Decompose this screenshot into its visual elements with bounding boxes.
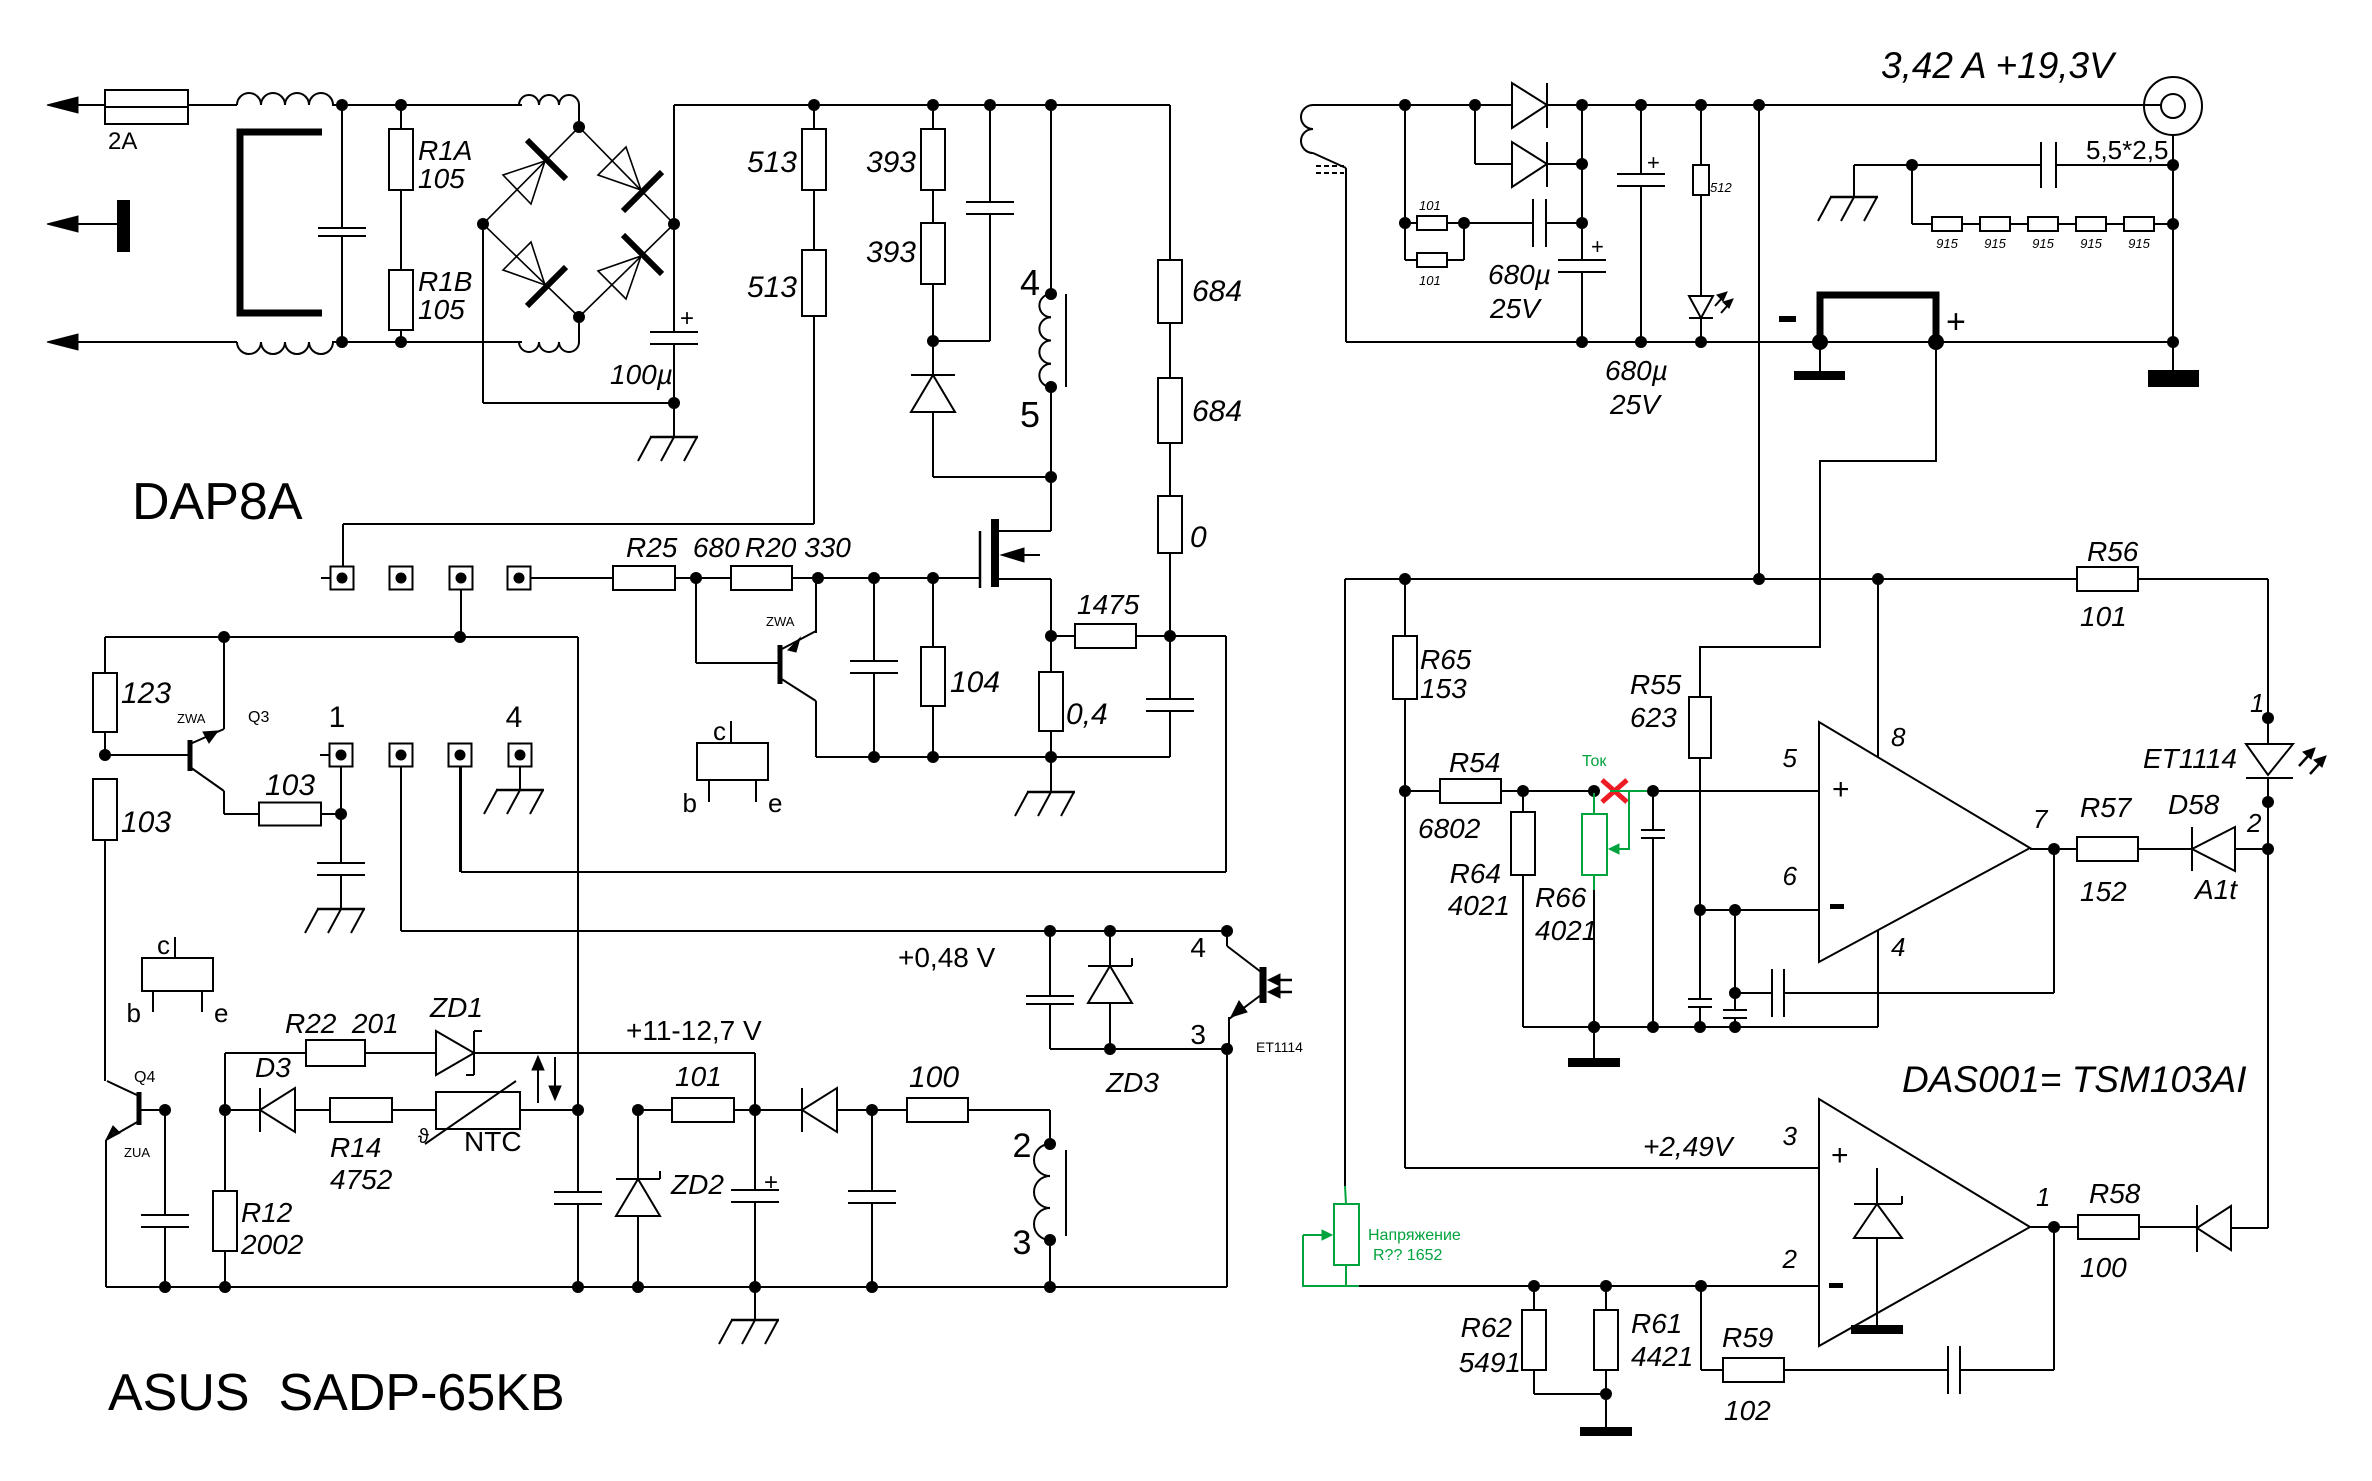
pin1 tick row1 bbox=[321, 577, 330, 579]
resistor 0.4 bbox=[1039, 636, 1108, 757]
svg-text:101: 101 bbox=[675, 1061, 722, 1092]
svg-text:25V: 25V bbox=[1609, 389, 1662, 420]
node LED bot bbox=[1695, 336, 1707, 348]
svg-text:102: 102 bbox=[1724, 1395, 1771, 1426]
svg-text:+2,49V: +2,49V bbox=[1643, 1131, 1735, 1162]
bridge node left bbox=[477, 218, 489, 230]
label Q2 pkg b bbox=[683, 780, 709, 818]
node gate-933 bbox=[927, 572, 939, 584]
capacitor sec film bbox=[1464, 199, 1582, 247]
svg-text:123: 123 bbox=[121, 677, 171, 710]
svg-text:R55: R55 bbox=[1630, 669, 1682, 700]
capacitor snubber top bbox=[933, 105, 1014, 341]
label Q3 ZWA bbox=[177, 711, 206, 726]
node fbrail-pin8 bbox=[1872, 573, 1884, 585]
wire minus input bbox=[1700, 909, 1819, 911]
svg-text:R20 330: R20 330 bbox=[745, 532, 851, 563]
node gndrail-578 bbox=[572, 1281, 584, 1293]
resistor R59 bbox=[1701, 1286, 1784, 1426]
node capP top bbox=[1647, 785, 1659, 797]
svg-text:e: e bbox=[214, 998, 228, 1028]
svg-text:ET1114: ET1114 bbox=[1256, 1039, 1303, 1055]
label Tok bbox=[1582, 753, 1607, 770]
node secrail-1475 bbox=[1469, 99, 1481, 111]
svg-text:6802: 6802 bbox=[1418, 813, 1481, 844]
node oprow-1653 bbox=[1647, 1021, 1659, 1033]
choke L1 bottom winding bbox=[237, 342, 333, 354]
svg-text:623: 623 bbox=[1630, 702, 1677, 733]
resistor R61 bbox=[1594, 1286, 1693, 1394]
resistor 103 horiz bbox=[224, 769, 341, 826]
label pin2 bbox=[1013, 1127, 1032, 1165]
svg-text:D3: D3 bbox=[255, 1052, 291, 1083]
node gndrail-1050 bbox=[1044, 1281, 1056, 1293]
resistor 101 par B bbox=[1405, 223, 1464, 288]
wire T1 pin4 riser bbox=[1050, 105, 1052, 294]
node film right bbox=[1576, 217, 1588, 229]
svg-text:R1B: R1B bbox=[418, 266, 472, 297]
resistor R62 bbox=[1459, 1286, 1606, 1394]
wire choke2b to bridge bottom bbox=[578, 317, 580, 342]
wire vcc aux top bbox=[105, 636, 578, 638]
wire source down bbox=[998, 579, 1051, 636]
capacitor aux 2 bbox=[848, 1110, 896, 1287]
node drain-477 bbox=[1045, 471, 1057, 483]
svg-text:7: 7 bbox=[2033, 804, 2049, 834]
node aux-ZD2 bbox=[632, 1104, 644, 1116]
node R25-R20 bbox=[690, 572, 702, 584]
svg-text:+0,48 V: +0,48 V bbox=[898, 942, 996, 973]
resistor R56 bbox=[2077, 536, 2139, 632]
node top-1 bbox=[336, 99, 348, 111]
label op1 pin8 bbox=[1891, 722, 1906, 752]
svg-text:5,5*2,5: 5,5*2,5 bbox=[2086, 135, 2168, 165]
wire Q4 emitter down bbox=[105, 1140, 107, 1287]
wire pin3 down bbox=[1049, 1240, 1051, 1287]
svg-text:ZUA: ZUA bbox=[124, 1145, 150, 1160]
wire Q2 base riser bbox=[695, 578, 697, 663]
node filmout left bbox=[1906, 159, 1918, 171]
label Q4 ZUA bbox=[124, 1145, 150, 1160]
svg-text:513: 513 bbox=[747, 271, 797, 304]
shunt staple bbox=[1820, 295, 1936, 342]
resistor R14 bbox=[330, 1098, 393, 1195]
label Napryazhenie bbox=[1368, 1227, 1461, 1264]
label ET1114 led bbox=[2143, 743, 2237, 774]
svg-text:ASUS SADP-65KB: ASUS SADP-65KB bbox=[108, 1364, 565, 1422]
resistor 0 bbox=[1158, 496, 1207, 554]
svg-text:ZD3: ZD3 bbox=[1105, 1067, 1159, 1098]
svg-text:4: 4 bbox=[506, 701, 523, 734]
node jack-165 bbox=[2167, 159, 2179, 171]
svg-text:153: 153 bbox=[1420, 673, 1467, 704]
svg-text:R65: R65 bbox=[1420, 644, 1472, 675]
bridge diode D-tl bbox=[503, 140, 566, 204]
svg-text:4752: 4752 bbox=[330, 1164, 393, 1195]
svg-text:680µ: 680µ bbox=[1605, 355, 1668, 386]
outline Q2 package bbox=[697, 743, 768, 780]
svg-text:4021: 4021 bbox=[1535, 915, 1597, 946]
svg-text:R56: R56 bbox=[2087, 536, 2139, 567]
wire +2.49 row bbox=[1405, 791, 1819, 1168]
pin pad row1-4 bbox=[508, 567, 531, 590]
svg-text:393: 393 bbox=[866, 236, 916, 269]
wire bottom to bridge bbox=[332, 341, 522, 343]
AC line N arrow bbox=[47, 334, 237, 350]
svg-text:Q3: Q3 bbox=[248, 709, 269, 726]
svg-text:105: 105 bbox=[418, 294, 465, 325]
resistor 393 lower bbox=[866, 223, 945, 341]
node shunt plus bbox=[1928, 334, 1944, 350]
outline Q4 package bbox=[142, 958, 213, 991]
svg-text:2002: 2002 bbox=[240, 1229, 304, 1260]
node cap680A bot bbox=[1576, 336, 1588, 348]
node rail-cap bbox=[984, 99, 996, 111]
label 2A bbox=[108, 128, 137, 155]
label op2 pin2 bbox=[1782, 1244, 1798, 1274]
phototransistor ET1114 bbox=[1227, 931, 1263, 1049]
capacitor Q4 base bbox=[141, 1110, 189, 1287]
svg-text:+: + bbox=[1647, 150, 1660, 175]
label opto pin3 bbox=[1190, 1019, 1206, 1050]
svg-text:104: 104 bbox=[950, 666, 1000, 699]
wire source return bbox=[816, 756, 1170, 758]
wire ZD1 to aux rail bbox=[474, 1053, 755, 1110]
wire snubber out bbox=[461, 636, 1226, 872]
ground sec stub bbox=[1818, 165, 1912, 221]
node fb993 bbox=[1729, 987, 1741, 999]
node oprow-1594 bbox=[1588, 1021, 1600, 1033]
node vset-R61 bbox=[1600, 1280, 1612, 1292]
label DAP8A bbox=[132, 473, 303, 531]
node R54 left bbox=[1399, 785, 1411, 797]
svg-text:+: + bbox=[1832, 773, 1850, 806]
node base-R12 bbox=[219, 1104, 231, 1116]
node opto e bottom bbox=[1221, 1043, 1233, 1055]
node secrail-1759 bbox=[1753, 99, 1765, 111]
svg-text:3: 3 bbox=[1013, 1224, 1032, 1262]
capacitor gate bbox=[850, 578, 898, 757]
node 393 bottom bbox=[927, 335, 939, 347]
node aux-pin3 bbox=[454, 631, 466, 643]
wire fb top rail bbox=[1345, 578, 2268, 580]
capacitor comp1 bbox=[1688, 910, 1712, 1027]
node gndrail-165 bbox=[159, 1281, 171, 1293]
choke core bracket bbox=[240, 132, 322, 313]
node source bbox=[1045, 630, 1057, 642]
transistor Q1 mosfet bbox=[980, 519, 1040, 588]
svg-text:R1A: R1A bbox=[418, 135, 472, 166]
svg-text:684: 684 bbox=[1192, 395, 1242, 428]
label Q2 pkg e bbox=[756, 780, 782, 818]
node vset-R59 bbox=[1695, 1280, 1707, 1292]
wire Q3 collector up bbox=[223, 637, 225, 729]
wire 684-684 bbox=[1169, 323, 1171, 378]
pin pad row2-2 bbox=[390, 744, 413, 767]
pin pad row1-1 bbox=[331, 567, 354, 590]
pin pad row2-1 bbox=[330, 744, 353, 767]
svg-text:915: 915 bbox=[2032, 236, 2054, 251]
zener ZD2 bbox=[616, 1110, 724, 1287]
node gndrail-638 bbox=[632, 1281, 644, 1293]
label op2 pin3 bbox=[1783, 1121, 1798, 1151]
label +2.49V bbox=[1643, 1131, 1735, 1162]
plug blade bar bbox=[117, 200, 130, 252]
svg-text:4021: 4021 bbox=[1448, 890, 1510, 921]
resistor 123 bbox=[93, 637, 171, 755]
svg-text:R22 201: R22 201 bbox=[285, 1008, 399, 1039]
node gndrail-225 bbox=[219, 1281, 231, 1293]
svg-text:2: 2 bbox=[1013, 1127, 1032, 1165]
resistor R22 bbox=[225, 1008, 399, 1066]
wire return up bbox=[815, 701, 817, 757]
svg-text:513: 513 bbox=[747, 146, 797, 179]
svg-text:+: + bbox=[1831, 1139, 1849, 1172]
label op2 pin1 bbox=[2036, 1182, 2050, 1212]
op-amp U1A bbox=[1819, 722, 2030, 962]
potentiometer R66 bbox=[1582, 791, 1629, 875]
svg-text:4: 4 bbox=[1020, 262, 1040, 303]
wire pot to gnd bbox=[1593, 875, 1595, 1027]
node pot top bbox=[1588, 785, 1600, 797]
diode rect D2 bbox=[1475, 105, 1582, 187]
winding T1 aux bbox=[1034, 1144, 1066, 1240]
arrow NTC down bbox=[549, 1057, 561, 1100]
svg-text:Q4: Q4 bbox=[134, 1069, 155, 1086]
resistor R55 bbox=[1630, 669, 1711, 910]
diode D3 bbox=[225, 1052, 330, 1132]
wire 513-513 bbox=[813, 190, 815, 250]
svg-text:512: 512 bbox=[1710, 180, 1732, 195]
svg-text:R61: R61 bbox=[1631, 1308, 1682, 1339]
node 101 left bbox=[1399, 217, 1411, 229]
svg-text:DAS001= TSM103AI: DAS001= TSM103AI bbox=[1902, 1059, 2247, 1100]
svg-text:100: 100 bbox=[2080, 1252, 2127, 1283]
node aux-578 bbox=[572, 1104, 584, 1116]
svg-text:Напряжение: Напряжение bbox=[1368, 1227, 1461, 1244]
wire op1 gnd row bbox=[1523, 1026, 1878, 1028]
svg-text:ZWA: ZWA bbox=[177, 711, 206, 726]
svg-text:R64: R64 bbox=[1450, 858, 1501, 889]
svg-text:3: 3 bbox=[1190, 1019, 1206, 1050]
wire 513 to pin1 link bbox=[343, 316, 814, 567]
svg-text:100: 100 bbox=[909, 1061, 959, 1094]
LED power bbox=[1689, 296, 1713, 342]
label op1 pin6 bbox=[1783, 861, 1798, 891]
node R64 top bbox=[1517, 785, 1529, 797]
capacitor x578 bbox=[554, 1110, 602, 1287]
svg-text:R?? 1652: R?? 1652 bbox=[1373, 1247, 1442, 1264]
node pot bottom bbox=[1588, 1021, 1600, 1033]
label Q2 pkg c bbox=[713, 716, 731, 746]
svg-text:Ток: Ток bbox=[1582, 753, 1607, 770]
label Q4 bbox=[134, 1069, 155, 1086]
wire top to R1A bbox=[332, 104, 522, 106]
svg-text:R54: R54 bbox=[1449, 747, 1500, 778]
wire op1 pin4 bbox=[1877, 930, 1879, 1027]
svg-text:680µ: 680µ bbox=[1488, 259, 1551, 290]
node fbrail-19V bbox=[1753, 573, 1765, 585]
label plus bbox=[1946, 303, 1966, 341]
chain 915 riser bbox=[1912, 165, 1932, 224]
node D2 out bbox=[1576, 158, 1588, 170]
choke L2 bottom winding bbox=[519, 342, 579, 352]
capacitor drain snub bbox=[1146, 636, 1194, 757]
node ret-104 bbox=[927, 751, 939, 763]
ground switcher bbox=[1015, 757, 1075, 816]
capacitor pin1 filter bbox=[317, 814, 365, 909]
label minus bbox=[1779, 316, 1796, 322]
wire sec gnd rail bbox=[1346, 341, 2173, 343]
wire 684-0 bbox=[1169, 443, 1171, 496]
label Q4pkg e bbox=[202, 991, 228, 1028]
svg-text:25V: 25V bbox=[1489, 293, 1542, 324]
ground minus bar bbox=[1794, 342, 1845, 380]
node 101 right bbox=[1458, 217, 1470, 229]
resistor R64 bbox=[1448, 791, 1535, 1027]
resistor 103 left bbox=[93, 779, 171, 1081]
wire choke2 to bridge top bbox=[578, 105, 580, 127]
wire R22 riser bbox=[224, 1053, 226, 1110]
node secrail-1701 bbox=[1695, 99, 1707, 111]
connector jack bbox=[2144, 77, 2202, 135]
label output rating bbox=[1881, 45, 2117, 86]
label LED pin2 bbox=[2246, 808, 2262, 838]
svg-text:5: 5 bbox=[1020, 394, 1040, 435]
svg-text:684: 684 bbox=[1192, 275, 1242, 308]
winding T1 sec bbox=[1301, 105, 1346, 342]
node top-2 bbox=[395, 99, 407, 111]
bridge diamond bbox=[483, 127, 674, 317]
label 100u bbox=[610, 359, 673, 390]
bridge node top bbox=[573, 121, 585, 133]
node D58 out bbox=[2262, 843, 2274, 855]
node op1 out bbox=[2048, 843, 2060, 855]
ground vset bbox=[1580, 1394, 1632, 1436]
diode op2 out bbox=[2197, 1205, 2268, 1252]
wire drain bbox=[998, 477, 1051, 531]
wire rail corner 684 bbox=[1169, 105, 1171, 260]
diode rect D1 bbox=[1512, 83, 1547, 128]
svg-text:101: 101 bbox=[2080, 601, 2127, 632]
svg-text:8: 8 bbox=[1891, 722, 1906, 752]
label DAS001 bbox=[1902, 1059, 2247, 1100]
label op1 minus bbox=[1830, 904, 1844, 909]
svg-text:915: 915 bbox=[1984, 236, 2006, 251]
node aux-Q3 bbox=[218, 631, 230, 643]
svg-text:c: c bbox=[713, 716, 726, 746]
svg-text:3: 3 bbox=[1783, 1121, 1798, 1151]
svg-text:2A: 2A bbox=[108, 128, 137, 155]
node minus-fb bbox=[1729, 904, 1741, 916]
pin pad row1-2 bbox=[390, 567, 413, 590]
svg-text:915: 915 bbox=[2128, 236, 2150, 251]
bridge diode D-bl bbox=[503, 242, 566, 306]
node oprow-1735 bbox=[1729, 1021, 1741, 1033]
bridge diode D-br bbox=[598, 235, 662, 299]
resistor 393 upper bbox=[866, 105, 945, 190]
label pin4 bbox=[1020, 262, 1040, 303]
svg-text:101: 101 bbox=[1419, 198, 1441, 213]
core T1 dashes bbox=[1316, 166, 1344, 173]
node rail-513 bbox=[808, 99, 820, 111]
svg-text:R14: R14 bbox=[330, 1132, 381, 1163]
node 103-pin1 bbox=[335, 808, 347, 820]
pin pad row1-3 bbox=[450, 567, 473, 590]
pin pad row2-4 bbox=[509, 744, 532, 767]
label opto pin4 bbox=[1190, 932, 1206, 963]
node rail-393 bbox=[927, 99, 939, 111]
AC line L arrow bbox=[47, 97, 105, 113]
wire bridge plus riser bbox=[673, 105, 675, 224]
bridge node right bbox=[668, 218, 680, 230]
wire pin3 row1 down bbox=[460, 590, 462, 637]
ground pin1 cap bbox=[305, 909, 365, 933]
resistor R57 bbox=[2030, 792, 2192, 907]
node aux-755 bbox=[749, 1104, 761, 1116]
label op1 plus bbox=[1832, 773, 1850, 806]
resistor 513 upper bbox=[747, 105, 826, 190]
resistors 915 x5 bbox=[1932, 217, 2173, 231]
svg-text:0: 0 bbox=[1190, 521, 1207, 554]
resistor 104 bbox=[921, 578, 1000, 757]
label R66 bbox=[1535, 882, 1597, 946]
transistor Q2 ZWA bbox=[696, 614, 816, 701]
capacitor comp2 bbox=[1723, 910, 1747, 1027]
wire pin5 down bbox=[1050, 387, 1052, 477]
wire gnd rail bottom bbox=[106, 1286, 1227, 1288]
svg-text:D58: D58 bbox=[2168, 789, 2220, 820]
svg-text:5: 5 bbox=[1783, 743, 1798, 773]
X-capacitor bbox=[318, 105, 366, 342]
svg-text:ET1114: ET1114 bbox=[2143, 743, 2237, 774]
wire pin2 row2 down bbox=[400, 767, 402, 931]
capacitor fb op2 bbox=[1784, 1227, 2054, 1394]
svg-text:101: 101 bbox=[1419, 273, 1441, 288]
node LED1 pin1 bbox=[2262, 712, 2274, 724]
resistor R54 bbox=[1405, 747, 1594, 844]
svg-text:1: 1 bbox=[2250, 688, 2264, 718]
svg-text:ϑ: ϑ bbox=[418, 1126, 429, 1148]
node T1 pin5 bbox=[1045, 381, 1057, 393]
node ret-gnd bbox=[1045, 751, 1057, 763]
node 100u bottom bbox=[668, 397, 680, 409]
label ASUS bbox=[108, 1364, 565, 1422]
svg-text:b: b bbox=[127, 998, 141, 1028]
wire pin3 row2 down bbox=[459, 767, 461, 872]
choke L2 top winding bbox=[519, 95, 579, 105]
svg-text:5491: 5491 bbox=[1459, 1347, 1521, 1378]
resistor 684 upper bbox=[1158, 260, 1242, 323]
wire HV rail bbox=[674, 104, 1170, 106]
node vset-R62 bbox=[1528, 1280, 1540, 1292]
ground pot bbox=[1568, 1027, 1620, 1067]
resistor R1A bbox=[389, 105, 472, 194]
resistor 101 par A bbox=[1405, 105, 1464, 230]
node secrail-1582 bbox=[1576, 99, 1588, 111]
wire to pin2 T1 bbox=[968, 1110, 1050, 1144]
svg-text:+: + bbox=[764, 1169, 778, 1196]
svg-text:e: e bbox=[768, 788, 782, 818]
svg-text:c: c bbox=[157, 930, 170, 960]
node aux-872 bbox=[866, 1104, 878, 1116]
node LED1 pin2 bbox=[2262, 796, 2274, 808]
node gndrail-872 bbox=[866, 1281, 878, 1293]
node shunt minus bbox=[1812, 334, 1828, 350]
wire gnd rail to opto bbox=[1226, 1049, 1228, 1287]
capacitor plus inp bbox=[1641, 791, 1665, 1027]
capacitor fb op1 bbox=[1735, 849, 2054, 1017]
